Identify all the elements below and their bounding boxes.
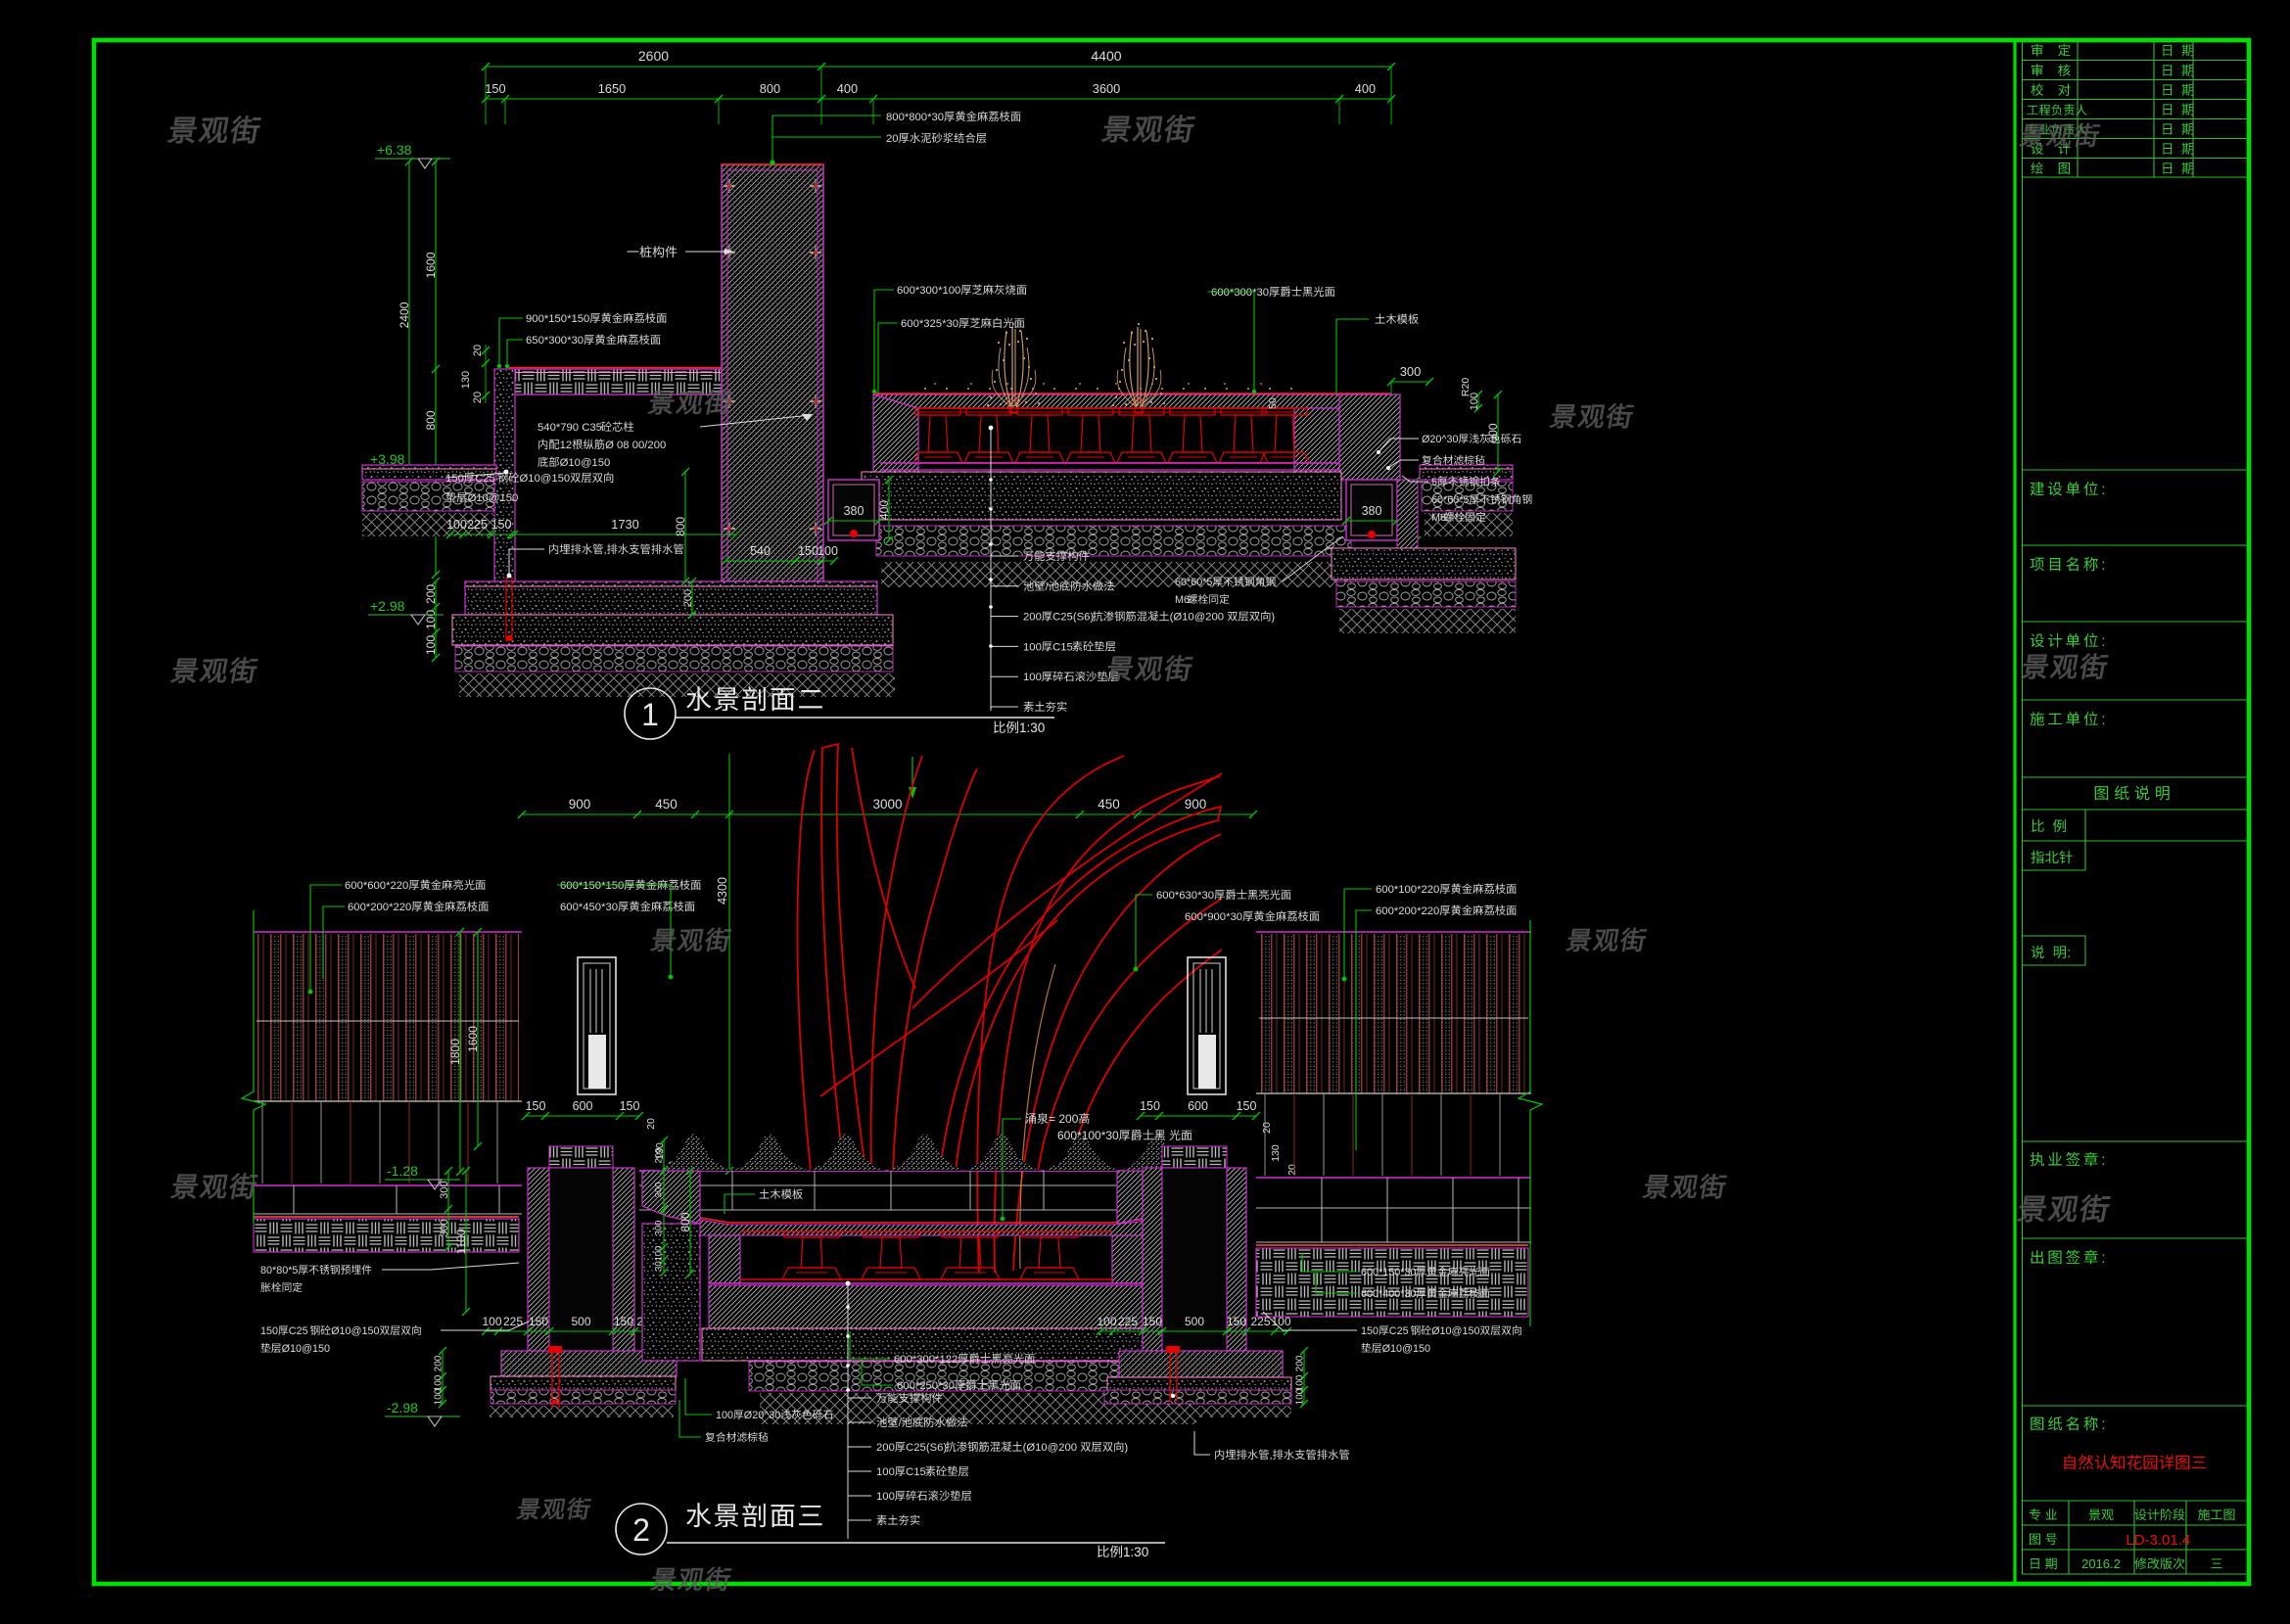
svg-text:1100: 1100 <box>454 1229 468 1254</box>
svg-text:Ø 08 00/200: Ø 08 00/200 <box>605 440 666 451</box>
svg-text:150: 150 <box>1143 1315 1162 1328</box>
svg-text:150: 150 <box>485 81 505 96</box>
svg-text:1730: 1730 <box>611 517 638 532</box>
basin earth hatch <box>881 562 1356 587</box>
left vertical dims 1600/800 chain <box>435 162 437 575</box>
red drain pipe left <box>505 578 507 641</box>
top dimension chain row1 2600/4400 <box>486 66 1391 68</box>
title block sections <box>2023 469 2247 471</box>
svg-text:150: 150 <box>491 518 512 532</box>
bottom leader list 2 <box>847 1283 849 1539</box>
svg-text:450: 450 <box>655 797 678 812</box>
svg-text::: : <box>2101 1416 2108 1433</box>
svg-text:100: 100 <box>424 635 438 655</box>
svg-text::: : <box>2067 946 2071 961</box>
svg-text:1800: 1800 <box>448 1039 462 1065</box>
svg-text:600: 600 <box>573 1099 593 1113</box>
svg-text:540*790 C35: 540*790 C35 <box>537 422 602 434</box>
basin earth <box>760 1393 1196 1424</box>
right wall striped cladding <box>1259 934 1528 1093</box>
svg-text:20: 20 <box>645 1118 657 1130</box>
svg-text:150: 150 <box>445 473 464 485</box>
svg-text:100: 100 <box>424 610 438 629</box>
svg-text:2400: 2400 <box>397 302 411 328</box>
svg-text:500: 500 <box>1185 1315 1204 1328</box>
basin cap hatch band <box>700 1219 1164 1235</box>
svg-text:20: 20 <box>472 392 484 403</box>
svg-text:50: 50 <box>1267 397 1279 409</box>
right drain pipe in channel <box>1166 1346 1180 1353</box>
left paving weave <box>254 1219 519 1252</box>
svg-text:1600: 1600 <box>424 252 438 278</box>
basin slab concrete <box>862 472 1341 520</box>
svg-text:100: 100 <box>876 1491 895 1503</box>
left wall panel top line <box>254 931 522 933</box>
svg-text:100: 100 <box>653 1246 664 1262</box>
right paving weave <box>1256 1248 1528 1317</box>
svg-text:Ø10@150: Ø10@150 <box>331 1325 379 1337</box>
svg-text:900*150*150: 900*150*150 <box>526 313 589 325</box>
right pilaster dim <box>1141 1115 1256 1117</box>
svg-text:130: 130 <box>1270 1144 1282 1162</box>
svg-text::: : <box>2101 1152 2108 1169</box>
svg-text:C25: C25 <box>289 1325 308 1337</box>
basin floor <box>880 462 1339 464</box>
svg-text:900: 900 <box>569 797 591 812</box>
svg-text:200: 200 <box>424 584 438 604</box>
red sculpture blades <box>797 744 1222 1273</box>
basin gravel layer <box>876 526 1351 556</box>
svg-text:650*300*30: 650*300*30 <box>526 335 584 347</box>
svg-text:100: 100 <box>1098 1315 1117 1328</box>
svg-text:4300: 4300 <box>716 877 729 905</box>
svg-text:2600: 2600 <box>638 48 669 64</box>
left channel footing <box>501 1351 677 1376</box>
svg-text:100: 100 <box>1023 641 1042 653</box>
svg-text:400: 400 <box>1355 81 1376 96</box>
svg-text:Ø10@150: Ø10@150 <box>1431 1325 1479 1337</box>
rock mounds <box>655 1135 733 1172</box>
sculpture leader arrow <box>911 757 913 795</box>
basin cap sloped red line <box>700 1217 1164 1223</box>
svg-text:800: 800 <box>678 1212 692 1231</box>
svg-text::: : <box>2101 633 2108 650</box>
left drain pipe in channel <box>548 1346 562 1353</box>
svg-text:600*250*30: 600*250*30 <box>897 1380 955 1392</box>
title block bottom table <box>2023 1524 2247 1526</box>
basin deck top line <box>639 1170 1236 1172</box>
left footing big <box>465 581 877 615</box>
svg-text:100: 100 <box>876 1466 895 1478</box>
label 土木模板 <box>1376 314 1385 324</box>
svg-text:150: 150 <box>1227 1315 1246 1328</box>
pilaster dim 150/600/150 <box>526 1115 639 1117</box>
svg-text:600*300*30: 600*300*30 <box>1211 287 1269 299</box>
fountain label <box>1025 1113 1035 1124</box>
left vertical dims 200/100/100 <box>435 581 437 658</box>
basin leveling concrete <box>702 1328 1188 1361</box>
svg-text:225: 225 <box>503 1315 523 1328</box>
svg-text:,: , <box>604 544 607 556</box>
left channel walls <box>528 1168 549 1351</box>
drain pipe label <box>549 544 558 554</box>
svg-text:): ) <box>1124 1442 1128 1454</box>
svg-text:20: 20 <box>886 133 899 145</box>
water surface dots <box>924 388 926 390</box>
basin red pedestals <box>740 1230 1112 1232</box>
svg-text:,: , <box>1270 1450 1273 1462</box>
basin floor slab <box>709 1282 1164 1284</box>
column anchor marks <box>724 185 735 187</box>
svg-text:Ø20^30: Ø20^30 <box>1422 434 1458 445</box>
svg-text:225: 225 <box>1118 1315 1138 1328</box>
svg-text:380: 380 <box>844 504 865 518</box>
svg-text:Ø10@150: Ø10@150 <box>1382 1343 1430 1355</box>
svg-text:600: 600 <box>1188 1099 1208 1113</box>
svg-text:60*60*5: 60*60*5 <box>1431 494 1469 506</box>
svg-text:= 200: = 200 <box>1049 1112 1079 1126</box>
right wall upper block <box>1339 394 1400 480</box>
right channel paving strip <box>1162 1146 1227 1168</box>
left channel dims <box>486 1330 672 1332</box>
svg-text:800: 800 <box>674 517 687 536</box>
left wall striped cladding <box>257 934 519 1101</box>
svg-text:600*150*30: 600*150*30 <box>1361 1267 1416 1278</box>
svg-text:-1.28: -1.28 <box>387 1163 418 1179</box>
svg-text::: : <box>2101 1250 2108 1267</box>
svg-text:2016.2: 2016.2 <box>2081 1556 2121 1571</box>
deck cell lines <box>639 1184 1232 1186</box>
svg-text:300: 300 <box>653 1183 664 1198</box>
right channel interior <box>1162 1168 1227 1351</box>
svg-text:): ) <box>1271 612 1275 624</box>
svg-text:300: 300 <box>653 1221 664 1236</box>
left footing earth <box>459 673 895 697</box>
svg-text:100: 100 <box>483 1315 502 1328</box>
title block top table <box>2023 60 2247 62</box>
left wall bottom magenta <box>254 1184 522 1186</box>
section 2 title <box>616 1504 667 1554</box>
svg-text::: : <box>2101 482 2108 498</box>
svg-text:Ø20^30: Ø20^30 <box>744 1410 780 1421</box>
svg-text:100: 100 <box>1023 672 1042 683</box>
label 土木模板 bottom <box>760 1189 770 1199</box>
left channel paving strip <box>549 1146 613 1168</box>
svg-text:C25: C25 <box>1389 1325 1409 1337</box>
right drain channel <box>1346 480 1397 540</box>
bottom leader list <box>990 428 992 711</box>
basin depth dims 800 <box>689 1171 691 1274</box>
svg-text:1: 1 <box>641 697 659 732</box>
svg-text:12: 12 <box>560 440 573 451</box>
small dims near pilaster <box>645 1118 657 1130</box>
svg-text:100: 100 <box>434 1388 444 1405</box>
left pilaster elevation <box>578 957 616 1094</box>
svg-text:Ø10@150: Ø10@150 <box>468 492 519 504</box>
svg-text:+2.98: +2.98 <box>370 598 405 614</box>
left gravel layer <box>362 482 494 511</box>
svg-text:80*80*5: 80*80*5 <box>260 1265 298 1276</box>
right footing under channel <box>1332 548 1516 580</box>
svg-text:500: 500 <box>572 1315 591 1328</box>
svg-text:300: 300 <box>439 1181 450 1198</box>
basin side walls <box>709 1235 740 1283</box>
svg-text:5: 5 <box>1431 477 1437 488</box>
svg-text:400: 400 <box>877 500 891 520</box>
svg-text:600*400*30: 600*400*30 <box>1361 1288 1416 1300</box>
svg-text:200: 200 <box>876 1442 895 1454</box>
svg-text:600*630*30: 600*630*30 <box>1156 890 1214 902</box>
column top labels <box>772 116 783 164</box>
svg-text:3600: 3600 <box>1093 81 1120 96</box>
basin outer concrete columns <box>642 1224 700 1361</box>
svg-text:100: 100 <box>446 518 467 532</box>
svg-text:130: 130 <box>460 371 472 389</box>
svg-text:600*900*30: 600*900*30 <box>1185 911 1242 923</box>
bottom dims of planter <box>450 534 511 535</box>
svg-text:300: 300 <box>1400 364 1422 379</box>
right earth <box>1425 513 1513 536</box>
right channel footing <box>1119 1351 1283 1377</box>
svg-text:1650: 1650 <box>598 81 626 96</box>
svg-text:200: 200 <box>682 589 694 607</box>
basin interior red support rails <box>918 407 1294 409</box>
svg-text:600: 600 <box>1486 423 1500 442</box>
left break line <box>242 910 265 1224</box>
svg-text:225: 225 <box>467 518 488 532</box>
right channel outer wall <box>1397 480 1418 548</box>
red pedestals <box>915 408 960 415</box>
central feature wall column <box>722 164 823 581</box>
svg-text:600*300*100: 600*300*100 <box>897 285 960 297</box>
svg-text::: : <box>2101 712 2108 728</box>
svg-text:600*450*30: 600*450*30 <box>560 902 618 913</box>
right pilaster elevation <box>1188 957 1226 1094</box>
svg-text:300: 300 <box>439 1219 450 1236</box>
right channel walls <box>1143 1168 1162 1351</box>
svg-text:150: 150 <box>620 1099 640 1113</box>
right break line <box>1519 920 1542 1326</box>
right 300 dim <box>1164 1185 1202 1187</box>
svg-text:2: 2 <box>632 1512 650 1548</box>
svg-text:20: 20 <box>472 345 484 356</box>
basin gravel <box>749 1362 1196 1391</box>
fountain jets <box>1009 399 1017 413</box>
watermarks 景观街 <box>167 116 261 144</box>
left deck band cells <box>254 1213 522 1215</box>
right wall bottom magenta <box>1256 1177 1531 1179</box>
svg-text:150: 150 <box>1361 1325 1379 1337</box>
svg-text:(Ø10@200: (Ø10@200 <box>1170 612 1224 624</box>
svg-text:600*100*30: 600*100*30 <box>1057 1129 1119 1142</box>
svg-text:M6: M6 <box>1431 512 1446 524</box>
svg-text:C15: C15 <box>906 1466 926 1478</box>
left layer chain <box>663 1140 665 1273</box>
svg-text:600*100*220: 600*100*220 <box>1376 884 1439 896</box>
left wall base course <box>254 1100 522 1102</box>
right wall panel top line <box>1256 931 1531 933</box>
svg-text:150: 150 <box>1140 1099 1160 1113</box>
basin cap band hatch <box>877 394 1391 408</box>
svg-text:600*200*220: 600*200*220 <box>348 902 411 913</box>
planter paving slab (basket weave) <box>509 369 722 394</box>
svg-text:100: 100 <box>716 1410 733 1421</box>
svg-text:800*800*30: 800*800*30 <box>886 112 944 123</box>
svg-text:1600: 1600 <box>466 1026 480 1052</box>
svg-text:540: 540 <box>750 544 771 558</box>
basin left wall <box>873 394 918 480</box>
svg-text:20: 20 <box>1286 1164 1298 1176</box>
svg-text:150: 150 <box>1237 1099 1257 1113</box>
svg-text:LD-3.01.4: LD-3.01.4 <box>2126 1532 2190 1549</box>
right footing layer dims <box>1303 1351 1305 1404</box>
svg-text:60*60*5: 60*60*5 <box>1175 577 1212 588</box>
drain note right <box>1215 1450 1224 1460</box>
label 一桩构件 <box>628 251 639 252</box>
svg-text:450: 450 <box>1098 797 1120 812</box>
svg-text:200: 200 <box>434 1355 444 1371</box>
left vertical dim 2400 <box>408 162 410 469</box>
svg-text:C25(S6): C25(S6) <box>906 1442 947 1454</box>
svg-text:100: 100 <box>1469 393 1480 410</box>
svg-text::: : <box>2101 557 2108 574</box>
svg-text:M6: M6 <box>1175 594 1190 606</box>
right gravel <box>1422 482 1513 511</box>
left drain channel <box>828 480 879 540</box>
svg-text:200: 200 <box>653 1148 664 1164</box>
basin side cap blocks at deck <box>642 1171 700 1224</box>
left footing layer dims <box>442 1351 444 1404</box>
svg-text:150: 150 <box>260 1325 278 1337</box>
svg-text:100: 100 <box>818 544 838 558</box>
svg-text:+6.38: +6.38 <box>377 142 412 158</box>
left earth hatch <box>362 513 494 536</box>
title block separator line <box>2013 40 2016 1584</box>
svg-text:400: 400 <box>837 81 858 96</box>
svg-text:600*200*220: 600*200*220 <box>1376 905 1439 917</box>
left ground slab <box>362 465 496 480</box>
top right small dims <box>1391 381 1429 383</box>
right deck band cells <box>1256 1207 1531 1209</box>
svg-text:200: 200 <box>1295 1355 1306 1371</box>
right channel dims <box>1100 1330 1287 1332</box>
svg-text:1:30: 1:30 <box>1123 1545 1148 1559</box>
svg-text:3000: 3000 <box>873 797 903 812</box>
section 1 title <box>625 688 676 739</box>
planter left wall (concrete) <box>494 369 515 581</box>
svg-text:Ø10@150: Ø10@150 <box>560 457 611 469</box>
right ground slab <box>1420 465 1513 480</box>
basin right wall <box>1294 408 1339 480</box>
svg-text:150: 150 <box>614 1315 633 1328</box>
svg-text:600*325*30: 600*325*30 <box>901 318 958 330</box>
left channel interior <box>549 1168 613 1351</box>
svg-text:150: 150 <box>529 1315 548 1328</box>
svg-text:(Ø10@200: (Ø10@200 <box>1023 1442 1077 1454</box>
left footing lower <box>452 615 893 645</box>
top dimension chain row2 <box>486 98 1391 100</box>
svg-text:150: 150 <box>526 1099 546 1113</box>
right wall base course <box>1256 1092 1531 1094</box>
left footing gravel <box>455 646 893 672</box>
svg-text:150: 150 <box>798 544 818 558</box>
svg-text:600*600*220: 600*600*220 <box>345 880 408 892</box>
svg-text:900: 900 <box>1185 797 1207 812</box>
svg-text:800: 800 <box>760 81 780 96</box>
svg-text:800: 800 <box>424 410 438 430</box>
svg-text:4400: 4400 <box>1091 48 1121 64</box>
svg-text:C15: C15 <box>1052 641 1073 653</box>
svg-text:30: 30 <box>653 1261 664 1272</box>
svg-text:1:30: 1:30 <box>1019 720 1045 735</box>
svg-text:600*300*122: 600*300*122 <box>894 1354 958 1366</box>
vertical dim 4300 <box>728 754 730 1171</box>
svg-text:600*150*150: 600*150*150 <box>560 880 624 892</box>
svg-text:380: 380 <box>1362 504 1382 518</box>
svg-text:20: 20 <box>1261 1122 1273 1134</box>
bottom dim chain 900/450/3000/450/900 <box>522 813 1253 815</box>
small dims 20/130/20 at paving <box>472 345 484 356</box>
svg-text:Ø10@150: Ø10@150 <box>282 1343 330 1355</box>
svg-text:C25(S6): C25(S6) <box>1052 612 1094 624</box>
svg-text:-2.98: -2.98 <box>387 1400 418 1415</box>
svg-text:Ø10@150: Ø10@150 <box>520 473 571 485</box>
svg-text:100: 100 <box>1295 1388 1306 1405</box>
svg-text:200: 200 <box>1023 612 1042 624</box>
left wall vertical dims <box>459 932 461 1172</box>
